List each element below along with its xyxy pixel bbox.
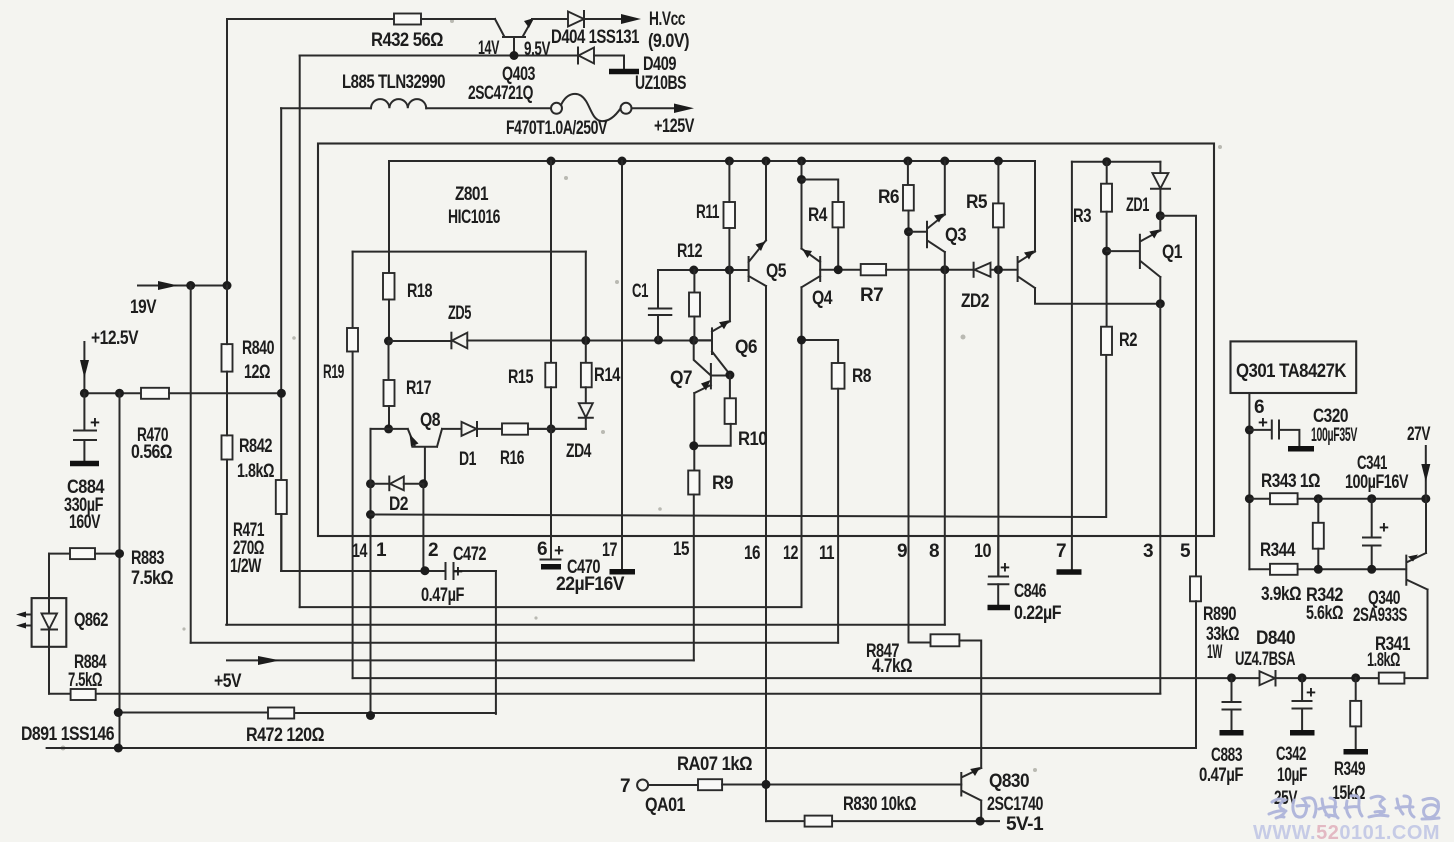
svg-text:Q5: Q5 <box>766 261 787 282</box>
svg-text:D1: D1 <box>459 449 477 470</box>
resistor R344 <box>1270 564 1298 575</box>
inductor L885 <box>281 107 371 109</box>
zener ZD2 <box>973 263 975 277</box>
resistor R16 <box>502 423 528 434</box>
transistor Q340 <box>1406 499 1427 678</box>
svg-text:D404 1SS131: D404 1SS131 <box>551 27 640 48</box>
terminal QA01 pin 7 <box>637 780 648 791</box>
wire pin7 line <box>1071 162 1073 569</box>
diode D840 <box>1260 671 1276 685</box>
transistor Q403 <box>495 19 532 56</box>
node H.Vcc arrow <box>621 14 641 24</box>
wire R470 row <box>84 392 141 394</box>
node 19V arrow <box>138 285 227 287</box>
svg-text:QA01: QA01 <box>645 795 686 816</box>
resistor R9 <box>693 393 695 470</box>
wire top rail to R432 <box>227 18 394 20</box>
resistor R11 <box>724 202 736 228</box>
svg-text:RA07 1kΩ: RA07 1kΩ <box>677 754 752 775</box>
svg-text:100µF16V: 100µF16V <box>1345 472 1409 493</box>
wire pin1/D2 vertical <box>370 429 372 716</box>
resistor R830 <box>766 820 805 822</box>
svg-text:Q1: Q1 <box>1162 242 1183 263</box>
svg-text:ZD4: ZD4 <box>566 441 592 462</box>
svg-text:2SC1740: 2SC1740 <box>987 794 1043 815</box>
svg-text:C1: C1 <box>632 281 649 302</box>
ground pin17 <box>610 569 636 575</box>
resistor R883 <box>49 553 70 555</box>
svg-text:+125V: +125V <box>654 116 695 137</box>
capacitor C341 <box>1363 499 1381 570</box>
svg-text:10: 10 <box>974 541 991 562</box>
svg-text:2SA933S: 2SA933S <box>1353 605 1407 626</box>
wire vertical from L885 wire <box>280 108 282 571</box>
svg-text:R2: R2 <box>1119 330 1137 351</box>
optocoupler Q862 <box>32 598 67 647</box>
wire inner frame top <box>353 251 586 253</box>
svg-text:14: 14 <box>352 541 368 562</box>
capacitor C846 <box>997 536 999 576</box>
ground for D409 <box>609 69 639 75</box>
svg-text:12Ω: 12Ω <box>244 362 270 383</box>
capacitor C470 <box>550 536 552 559</box>
svg-text:16: 16 <box>744 543 760 564</box>
transistor Q5 <box>749 240 766 286</box>
wire R18 branch from rail A <box>388 161 390 273</box>
svg-text:R12: R12 <box>677 241 702 262</box>
wire vertical from 14V wire <box>299 56 301 608</box>
wire C472 vertical to R472 bus <box>495 571 497 714</box>
resistor R471 <box>276 480 287 514</box>
wire +12.5V vertical to R883 <box>119 393 121 748</box>
wire pin14 line <box>352 352 354 679</box>
resistor R6 <box>907 161 909 185</box>
resistor R18 <box>383 273 395 300</box>
svg-text:Q8: Q8 <box>420 410 440 431</box>
bus H D891 row <box>47 747 1196 749</box>
svg-text:160V: 160V <box>69 512 101 533</box>
wire ZD1 to pin5 line <box>1160 216 1196 577</box>
svg-text:R349: R349 <box>1334 759 1365 780</box>
wire D2 right vertical to pin2 <box>422 484 424 571</box>
capacitor C472 <box>281 570 445 572</box>
bus F R884 to pin3 <box>49 693 1160 695</box>
junction dots ZD5 row <box>581 336 590 345</box>
svg-text:Q830: Q830 <box>989 771 1029 792</box>
resistor R840 <box>222 344 233 372</box>
resistor R19 on inner frame left <box>352 252 354 328</box>
diode D409 <box>577 48 579 64</box>
svg-text:C342: C342 <box>1276 744 1306 765</box>
resistor R432 <box>394 14 421 25</box>
resistor R341 <box>1379 673 1405 684</box>
svg-text:R14: R14 <box>594 365 621 386</box>
svg-text:Z801: Z801 <box>455 184 489 205</box>
svg-text:ZD5: ZD5 <box>448 303 472 324</box>
wire Q4 base row with R7 <box>820 269 861 271</box>
ground pin7 <box>1057 569 1082 575</box>
svg-text:H.Vcc: H.Vcc <box>649 9 686 30</box>
wire R343 row <box>1245 494 1254 503</box>
bus B R842 to pin8 <box>226 624 945 626</box>
svg-text:2: 2 <box>428 540 438 561</box>
svg-text:R10: R10 <box>738 429 767 450</box>
transistor Q6 <box>694 321 730 374</box>
svg-text:+: + <box>1306 683 1316 702</box>
svg-text:R3: R3 <box>1073 206 1091 227</box>
svg-text:+: + <box>1379 518 1389 537</box>
svg-text:9.5V: 9.5V <box>524 39 551 60</box>
resistor R15 <box>550 161 552 363</box>
svg-text:R19: R19 <box>323 362 344 383</box>
transistor Q8 <box>384 424 393 433</box>
svg-text:27V: 27V <box>1407 424 1431 445</box>
svg-text:+: + <box>1000 558 1010 577</box>
svg-text:C883: C883 <box>1211 745 1242 766</box>
wire rail A inside module <box>389 160 1035 162</box>
svg-text:19V: 19V <box>130 297 157 318</box>
svg-text:L885 TLN32990: L885 TLN32990 <box>342 72 445 93</box>
wire 19V vertical to bus C <box>190 286 192 643</box>
diode D2 row <box>366 479 375 488</box>
svg-text:+5V: +5V <box>214 671 242 692</box>
bus D +5V to pin15 <box>227 659 694 661</box>
wire pin17 line <box>621 161 623 569</box>
wire R344 row <box>1249 568 1270 570</box>
bus G R472 row <box>118 712 496 715</box>
svg-text:R16: R16 <box>500 448 524 469</box>
resistor R472 <box>268 708 294 719</box>
svg-text:1.8kΩ: 1.8kΩ <box>1367 650 1400 671</box>
node +5V arrow <box>258 656 280 665</box>
wire rail B inside module <box>1072 161 1161 163</box>
wire pin3 line <box>1159 304 1161 694</box>
svg-text:1/2W: 1/2W <box>230 556 261 577</box>
svg-text:22µF16V: 22µF16V <box>556 574 625 595</box>
resistor R5 <box>997 161 999 203</box>
svg-text:Q862: Q862 <box>74 610 108 631</box>
svg-text:6: 6 <box>537 539 547 560</box>
resistor R14 <box>585 252 587 363</box>
svg-text:7.5kΩ: 7.5kΩ <box>68 670 102 691</box>
bus A x299 to pin12 <box>300 606 802 608</box>
svg-text:HIC1016: HIC1016 <box>448 207 500 228</box>
svg-text:F470T1.0A/250V: F470T1.0A/250V <box>506 118 608 139</box>
svg-text:4.7kΩ: 4.7kΩ <box>872 656 912 677</box>
svg-text:R344: R344 <box>1260 540 1296 561</box>
svg-text:D409: D409 <box>643 54 676 75</box>
svg-text:0.56Ω: 0.56Ω <box>131 442 172 463</box>
svg-text:17: 17 <box>602 540 617 561</box>
svg-text:R343 1Ω: R343 1Ω <box>1261 471 1320 492</box>
resistor RA07 <box>648 784 698 786</box>
svg-text:Q3: Q3 <box>945 225 966 246</box>
resistor R2 <box>1101 327 1112 355</box>
resistor R847 <box>909 642 931 644</box>
svg-text:3: 3 <box>1143 541 1153 562</box>
capacitor C883 <box>1227 673 1236 682</box>
svg-text:C472: C472 <box>453 544 486 565</box>
transistor Q2 <box>1018 252 1035 289</box>
svg-text:R9: R9 <box>712 473 733 494</box>
wire rail A right corner down to Q2 <box>1034 161 1036 252</box>
svg-text:R883: R883 <box>131 548 164 569</box>
wire pin10 line <box>997 270 999 576</box>
svg-text:R842: R842 <box>239 436 272 457</box>
svg-text:5.6kΩ: 5.6kΩ <box>1306 603 1343 624</box>
svg-text:UZ10BS: UZ10BS <box>635 73 686 94</box>
svg-text:Q4: Q4 <box>812 288 833 309</box>
wire long row D2 to R2 <box>371 355 1107 517</box>
svg-text:3.9kΩ: 3.9kΩ <box>1261 584 1301 605</box>
junction dots on rail A <box>547 157 556 166</box>
resistor R342 <box>1317 499 1319 523</box>
pin 6 of Q301 <box>1248 393 1250 569</box>
svg-text:R18: R18 <box>407 281 432 302</box>
zener ZD5 <box>450 333 452 349</box>
bus C 19V to pin11 <box>191 642 838 644</box>
wire Q4 emitter to rail A <box>801 161 803 249</box>
svg-text:7: 7 <box>1056 541 1066 562</box>
resistor R349 <box>1351 673 1360 682</box>
resistor R842 <box>222 435 233 459</box>
svg-text:+: + <box>554 541 564 560</box>
wire ZD5 row <box>384 337 393 346</box>
zener ZD1 <box>1159 162 1161 173</box>
fuse F470 <box>551 103 562 114</box>
wire pin8 line <box>944 270 946 625</box>
svg-text:D891 1SS146: D891 1SS146 <box>21 724 114 745</box>
svg-text:1.8kΩ: 1.8kΩ <box>237 461 274 482</box>
wire pin16 line from Q5 emitter <box>765 286 767 821</box>
svg-text:12: 12 <box>783 543 798 564</box>
IC Q301 TA8427K box <box>1231 341 1357 393</box>
module Z801 outline box <box>318 144 1214 537</box>
svg-text:Q301 TA8427K: Q301 TA8427K <box>1236 361 1347 382</box>
capacitor C320 <box>1245 425 1254 434</box>
capacitor C1 <box>649 270 671 340</box>
resistor R3 <box>1106 162 1108 184</box>
svg-text:Q403: Q403 <box>502 64 535 85</box>
resistor R343 <box>1270 493 1298 504</box>
svg-text:2SC4721Q: 2SC4721Q <box>468 83 533 104</box>
transistor Q7 <box>694 340 730 393</box>
svg-text:R5: R5 <box>966 192 988 213</box>
transistor Q3 <box>909 215 945 253</box>
wire R840 R842 chain to bus B <box>226 286 228 625</box>
svg-text:ZD2: ZD2 <box>961 291 989 312</box>
resistor R8 <box>802 340 839 363</box>
watermark line 1 <box>1269 796 1439 819</box>
svg-text:ZD1: ZD1 <box>1126 195 1150 216</box>
transistor Q830 <box>961 768 981 821</box>
svg-text:5V-1: 5V-1 <box>1006 814 1044 835</box>
svg-text:C320: C320 <box>1313 406 1348 427</box>
svg-text:Q6: Q6 <box>735 337 757 358</box>
capacitor C884 <box>74 393 96 461</box>
svg-text:11: 11 <box>819 543 835 564</box>
svg-text:5: 5 <box>1180 541 1191 562</box>
svg-text:UZ4.7BSA: UZ4.7BSA <box>1235 649 1296 670</box>
svg-text:R4: R4 <box>808 205 828 226</box>
svg-text:R830 10kΩ: R830 10kΩ <box>843 794 916 815</box>
resistor R890 <box>1190 576 1201 601</box>
svg-text:R15: R15 <box>508 367 534 388</box>
svg-text:0.22µF: 0.22µF <box>1014 603 1061 624</box>
wire Q2 emitter row <box>1035 288 1160 304</box>
transistor Q1 <box>1107 231 1161 278</box>
svg-text:C846: C846 <box>1014 581 1046 602</box>
capacitor C342 <box>1298 673 1307 682</box>
svg-text:Q7: Q7 <box>670 368 692 389</box>
svg-text:R11: R11 <box>696 202 720 223</box>
svg-text:D2: D2 <box>389 494 408 515</box>
svg-text:7: 7 <box>620 776 630 797</box>
bus E pin14 to R341 row <box>353 677 1379 679</box>
svg-text:8: 8 <box>929 541 939 562</box>
wire Q403 emitter to D404 <box>532 18 568 20</box>
svg-text:100µF35V: 100µF35V <box>1311 425 1358 446</box>
wire Q8 collector to D1 <box>442 428 462 430</box>
wire 14V line with Q403 base junction <box>300 55 578 57</box>
svg-text:9: 9 <box>897 541 907 562</box>
resistor R884 <box>71 689 96 700</box>
svg-text:15: 15 <box>673 539 690 560</box>
svg-text:R840: R840 <box>242 338 274 359</box>
svg-text:R890: R890 <box>1203 604 1236 625</box>
svg-text:C341: C341 <box>1357 453 1388 474</box>
svg-text:(9.0V): (9.0V) <box>648 31 689 52</box>
svg-text:R17: R17 <box>406 378 431 399</box>
svg-text:WWW.520101.COM: WWW.520101.COM <box>1253 822 1440 842</box>
transistor Q4 <box>802 249 821 288</box>
node +125V arrow <box>674 104 694 114</box>
faint scan specks <box>61 19 1223 772</box>
svg-text:R7: R7 <box>860 285 883 306</box>
wire vertical from R432 wire down left side <box>226 19 228 286</box>
svg-text:+: + <box>90 413 100 432</box>
resistor R17 <box>388 341 390 380</box>
svg-text:R6: R6 <box>878 187 899 208</box>
svg-text:0.47µF: 0.47µF <box>421 585 464 606</box>
svg-text:R432 56Ω: R432 56Ω <box>371 30 443 51</box>
wire C1 R12 R11 row <box>658 269 748 271</box>
resistor R4 <box>802 180 839 203</box>
svg-text:R8: R8 <box>852 366 871 387</box>
diode D404 <box>568 12 584 27</box>
resistor R7 <box>861 264 886 275</box>
svg-text:7.5kΩ: 7.5kΩ <box>131 568 173 589</box>
svg-text:+: + <box>1258 413 1268 432</box>
svg-text:10µF: 10µF <box>1277 765 1307 786</box>
wire pin12 line from Q4 collector <box>801 287 803 606</box>
svg-text:1W: 1W <box>1207 642 1222 663</box>
svg-text:+12.5V: +12.5V <box>91 328 139 349</box>
diode D1 <box>462 422 477 436</box>
svg-text:1: 1 <box>376 540 387 561</box>
zener ZD4 <box>585 387 587 403</box>
svg-text:0.47µF: 0.47µF <box>1199 765 1243 786</box>
svg-text:R472 120Ω: R472 120Ω <box>246 725 324 746</box>
resistor R470 <box>141 388 169 399</box>
resistor R12 <box>693 270 695 293</box>
svg-text:D840: D840 <box>1256 628 1295 649</box>
resistor R10 <box>729 375 731 398</box>
